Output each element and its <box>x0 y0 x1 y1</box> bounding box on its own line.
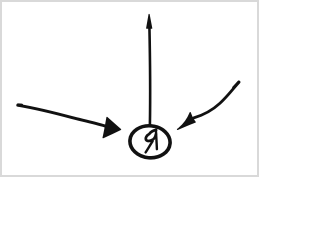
circle node Я <box>129 124 172 159</box>
wire vertical arrow shaft <box>148 26 151 125</box>
right arrow tail blob <box>234 82 239 87</box>
letter Я leg <box>146 141 153 152</box>
letter Я bowl <box>146 130 156 141</box>
arrowhead right <box>103 117 121 137</box>
wire left arrow shaft <box>18 105 105 126</box>
letter Я stem <box>156 130 157 149</box>
arrowhead up <box>147 15 152 29</box>
left arrow tail blob <box>18 103 21 107</box>
wire right arrow shaft <box>194 82 239 118</box>
arrowhead left-down <box>178 113 196 130</box>
